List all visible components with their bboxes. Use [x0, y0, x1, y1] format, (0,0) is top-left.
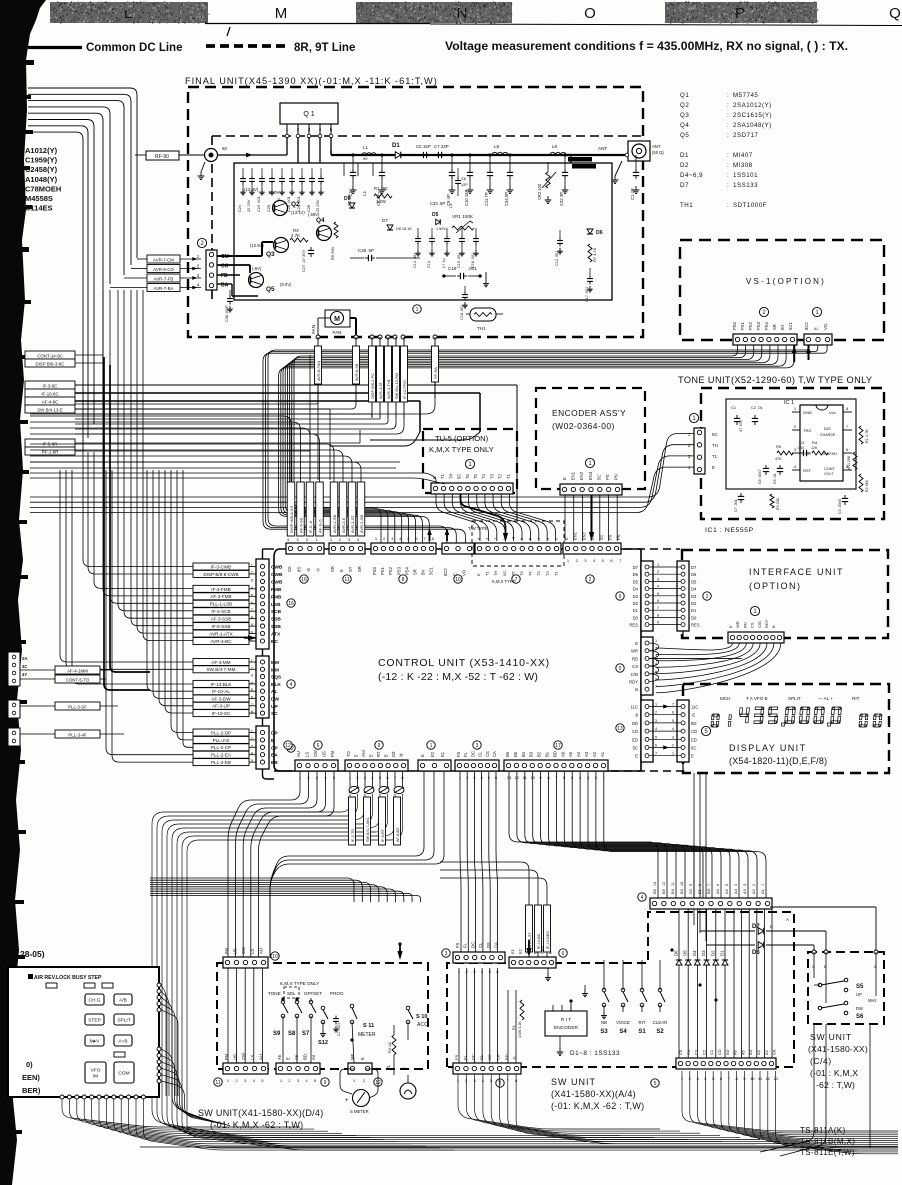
svg-text:B4: B4: [521, 751, 526, 757]
svg-text:(13.8V): (13.8V): [244, 187, 259, 192]
svg-text:B1: B1: [697, 888, 702, 894]
control top strip 11: [329, 543, 365, 554]
svg-text:A6: A6: [560, 751, 565, 757]
svg-text:5: 5: [725, 884, 729, 886]
panel bottom pins: [60, 1095, 64, 1099]
left strip group2 8pin: [256, 656, 269, 718]
svg-text:3: 3: [743, 884, 747, 886]
svg-text:M: M: [275, 5, 288, 22]
svg-text:EN2: EN2: [579, 471, 584, 480]
svg-text:C1: C1: [731, 405, 737, 410]
svg-text:AVR-1-ATX: AVR-1-ATX: [209, 631, 232, 636]
svg-text:1: 1: [672, 752, 674, 756]
svg-text:D3: D3: [633, 594, 639, 599]
left strips link wires: [262, 549, 264, 559]
RIT encoder box: [545, 1011, 587, 1036]
PA stage solid box: [234, 163, 612, 300]
svg-text:6: 6: [716, 884, 720, 886]
svg-text:EB: EB: [271, 760, 278, 766]
svg-text:K,M,X TYPE ONLY: K,M,X TYPE ONLY: [280, 981, 319, 986]
svg-text:EA: EA: [271, 753, 278, 759]
svg-text:12P: 12P: [461, 183, 468, 187]
svg-text:COM: COM: [118, 1071, 129, 1077]
coil L2 L3 L4 vertical: [343, 163, 345, 176]
panel right edge pins upper: [157, 983, 161, 987]
svg-text:Q5: Q5: [266, 286, 275, 293]
svg-text:L2: L2: [377, 191, 382, 196]
svg-text:C7 22P: C7 22P: [434, 144, 449, 149]
svg-text:2: 2: [752, 884, 756, 886]
svg-text:B5: B5: [513, 751, 518, 757]
svg-text:AVR-2-SB: AVR-2-SB: [359, 515, 364, 533]
svg-text:C32 3P: C32 3P: [559, 192, 564, 206]
svg-text:2A: 2A: [22, 656, 27, 661]
svg-text:2SA1012(Y): 2SA1012(Y): [733, 102, 772, 109]
resistor R7 4.7K: [588, 244, 592, 262]
svg-text:IF-3-FMB: IF-3-FMB: [211, 587, 230, 592]
svg-text:5C: 5C: [633, 746, 638, 751]
svg-text:60: 60: [222, 146, 228, 151]
svg-text:S3: S3: [600, 1029, 608, 1035]
diode D8: [706, 944, 755, 946]
svg-text:R5 560: R5 560: [330, 246, 335, 260]
svg-text:C14 .001: C14 .001: [413, 253, 417, 268]
svg-text:CLEAR: CLEAR: [653, 1020, 668, 1025]
svg-text:AVR-7-CM: AVR-7-CM: [153, 257, 174, 262]
thermistor TH1: [470, 308, 496, 321]
ground under strip6s: [547, 968, 549, 974]
svg-text:PS: PS: [608, 534, 613, 540]
svg-text:A6: A6: [715, 888, 720, 894]
wire bus strip-a to SW D4 strip10: [228, 772, 300, 958]
svg-text:-6: -6: [511, 537, 515, 540]
svg-text:IF-10-BD: IF-10-BD: [537, 933, 541, 949]
wire verticals mid-left descending: [102, 310, 104, 410]
svg-text:16: 16: [288, 601, 294, 607]
svg-text:PS4: PS4: [404, 566, 409, 575]
svg-text:C4: C4: [799, 440, 805, 445]
svg-text::: :: [727, 132, 729, 139]
svg-text:4: 4: [477, 538, 481, 540]
svg-text:R4: R4: [812, 440, 818, 445]
svg-text:5: 5: [655, 735, 657, 739]
wire arrow on RF line: [246, 153, 252, 158]
svg-text:Q3: Q3: [266, 251, 275, 258]
svg-text:IF-2-TO: IF-2-TO: [351, 829, 355, 842]
svg-text:ACC: ACC: [417, 1022, 428, 1028]
left edge stub connectors: [8, 652, 20, 686]
svg-text:MI407: MI407: [733, 152, 753, 159]
svg-text:EN1: EN1: [573, 531, 578, 540]
node C1 4P: [635, 155, 637, 170]
svg-text:2SA1048(Y): 2SA1048(Y): [733, 122, 772, 129]
svg-text:VO: VO: [823, 323, 828, 330]
resistor R1 180: [374, 194, 392, 198]
svg-text:FS: FS: [456, 751, 461, 757]
arrow into strip10 pin1: [445, 529, 450, 535]
svg-text:5: 5: [619, 666, 622, 672]
svg-text:BLK: BLK: [271, 682, 281, 688]
panel buttons: [85, 994, 104, 1005]
svg-text:ATX: ATX: [271, 632, 281, 638]
wire bus encoder to control strip 2: [564, 495, 566, 541]
svg-text:12K: 12K: [811, 446, 818, 450]
svg-text:L6: L6: [552, 144, 558, 149]
svg-text:Q 1: Q 1: [303, 111, 314, 118]
svg-text:LSB: LSB: [271, 602, 281, 608]
svg-text:E: E: [635, 641, 638, 646]
svg-text:C6: C6: [461, 177, 466, 181]
svg-text:T5: T5: [519, 571, 524, 576]
wire maze left vertical bus to label boxes: [83, 452, 193, 567]
svg-text:IF-9-RT: IF-9-RT: [381, 828, 385, 842]
svg-text:PS2: PS2: [388, 566, 393, 575]
svg-text:S9: S9: [273, 1031, 281, 1037]
wire bus below strip2b: [458, 1074, 660, 1129]
svg-text:1SS133: 1SS133: [733, 182, 758, 189]
svg-text:3: 3: [672, 735, 674, 739]
svg-text:R5: R5: [776, 444, 782, 449]
svg-text:NB: NB: [601, 1020, 607, 1025]
svg-text:DISP B/8-8-CWB: DISP B/8-8-CWB: [203, 572, 238, 577]
svg-text:AVR-8-CO: AVR-8-CO: [153, 267, 174, 272]
svg-text:Q: Q: [889, 5, 901, 22]
svg-text:LS: LS: [305, 752, 310, 757]
svg-text:(-01 : K,M,X: (-01 : K,M,X: [810, 1068, 858, 1078]
svg-text:2: 2: [672, 744, 674, 748]
svg-text:C11 7P: C11 7P: [484, 192, 489, 206]
svg-text:1: 1: [416, 307, 419, 313]
svg-text:D9: D9: [344, 196, 351, 202]
svg-text:+: +: [345, 1098, 349, 1104]
diode D5 VR1 100K: [436, 219, 441, 224]
svg-text:1 50V: 1 50V: [436, 227, 446, 231]
svg-text:TONE: TONE: [268, 991, 281, 996]
svg-text:E: E: [384, 754, 389, 757]
svg-text:DZ: DZ: [391, 751, 396, 757]
svg-text:VR1 20K: VR1 20K: [847, 455, 851, 470]
svg-text:A4: A4: [576, 751, 581, 757]
svg-text:0): 0): [26, 1060, 33, 1069]
SW UNIT D4 dashed box: [217, 963, 428, 1069]
svg-text:VOICE: VOICE: [616, 1020, 630, 1025]
svg-text:DS: DS: [486, 942, 491, 948]
svg-text:SW UNIT(X41-1580-XX)(D/4): SW UNIT(X41-1580-XX)(D/4): [198, 1108, 324, 1118]
vertical label boxes under strip b: [349, 797, 356, 845]
svg-text:VO: VO: [462, 569, 467, 576]
svg-text:D7: D7: [633, 565, 639, 570]
svg-text:T3: T3: [489, 473, 494, 479]
svg-text:S5: S5: [856, 984, 864, 990]
svg-text:MCH: MCH: [720, 696, 730, 701]
svg-text:D6: D6: [691, 572, 697, 577]
bold 8C horizontals: [75, 392, 480, 394]
panel right edge pins lower: [157, 1047, 161, 1051]
svg-text:12: 12: [766, 1076, 771, 1081]
svg-text:B: B: [770, 924, 773, 929]
svg-text:PLL-2-DP: PLL-2-DP: [211, 730, 231, 735]
svg-text:PS2: PS2: [748, 321, 753, 330]
svg-text:D7: D7: [752, 924, 760, 930]
wire bus VS-1 connector2 to control strip 8: [294, 345, 738, 546]
svg-text:FMB: FMB: [271, 587, 282, 593]
svg-text:C38 .5P: C38 .5P: [358, 248, 374, 253]
svg-text:PN: PN: [614, 474, 619, 480]
svg-text:E: E: [420, 754, 425, 757]
svg-text:(-01: K,M,X -62 : T,W): (-01: K,M,X -62 : T,W): [210, 1120, 303, 1130]
svg-text:C2: C2: [701, 1049, 706, 1055]
svg-text:IF-3-CWB: IF-3-CWB: [211, 564, 231, 569]
svg-text:CL: CL: [479, 1054, 484, 1060]
svg-text:B6: B6: [652, 888, 657, 894]
svg-text:9: 9: [657, 621, 659, 625]
svg-text:Vcc: Vcc: [829, 410, 836, 415]
svg-text:11C: 11C: [631, 705, 638, 710]
left stub labels AF-4-1MM CONT-5-TO: [55, 666, 100, 674]
svg-text:C5 .01: C5 .01: [773, 473, 777, 484]
svg-text:A5: A5: [740, 1049, 745, 1055]
svg-text:E: E: [564, 537, 569, 540]
svg-text:CD: CD: [717, 1049, 722, 1055]
svg-text:CWB: CWB: [271, 565, 283, 571]
display 7seg digits: [711, 714, 720, 727]
svg-text:6: 6: [520, 538, 524, 540]
svg-text:D1: D1: [392, 143, 400, 149]
svg-text:CA: CA: [772, 1049, 777, 1055]
lower small caps row: [417, 228, 419, 236]
svg-text:E1: E1: [440, 751, 445, 757]
svg-text:L7 1u: L7 1u: [442, 258, 446, 268]
svg-text:S METER: S METER: [350, 1109, 369, 1114]
svg-text:S2: S2: [656, 1029, 664, 1035]
control bottom strip b 8pin: [345, 760, 408, 771]
strip 11 D4: [223, 1063, 268, 1074]
svg-text:C12 .001: C12 .001: [555, 251, 559, 266]
svg-text:C6 .0047: C6 .0047: [758, 469, 762, 484]
svg-text:B: B: [635, 687, 638, 692]
svg-text:RD: RD: [632, 656, 638, 661]
svg-text:7: 7: [655, 685, 657, 689]
CONTROL UNIT outline: [274, 549, 641, 771]
svg-text:T2: T2: [545, 571, 550, 576]
index bar block L (dark): [50, 2, 208, 23]
svg-text:(X41-1580-XX)(A/4): (X41-1580-XX)(A/4): [551, 1089, 636, 1099]
svg-text:BD: BD: [552, 751, 557, 757]
svg-text:8S: 8S: [297, 567, 302, 572]
svg-text:C7-.001: C7-.001: [337, 1022, 341, 1036]
svg-text:L1: L1: [363, 145, 369, 150]
RF input coax J1: [205, 149, 218, 162]
svg-text:RIT: RIT: [852, 696, 860, 701]
control bottom strip e 13pin: [504, 760, 608, 771]
arrow on 5C1 wire: [793, 345, 795, 362]
svg-text:D1: D1: [633, 608, 639, 613]
svg-text:4.7K: 4.7K: [291, 233, 300, 238]
svg-text:A3: A3: [756, 1049, 761, 1055]
svg-text:AVR-2-E: AVR-2-E: [341, 517, 346, 533]
svg-text:ANI: ANI: [361, 750, 366, 757]
svg-text:C27 .47 35V: C27 .47 35V: [301, 249, 306, 272]
svg-text:D4: D4: [691, 587, 697, 592]
svg-text:IC 1: IC 1: [784, 400, 794, 406]
svg-text:RES: RES: [691, 623, 700, 628]
svg-text:IF-12-PRO: IF-12-PRO: [402, 380, 407, 399]
svg-text:D3: D3: [701, 950, 706, 956]
svg-text::: :: [727, 202, 729, 209]
resistor R3 1ohm: [392, 1035, 396, 1055]
svg-text:12: 12: [285, 743, 291, 749]
svg-text:ED: ED: [691, 737, 697, 742]
svg-text:LS: LS: [250, 949, 255, 954]
svg-text:R1 4.7K: R1 4.7K: [865, 429, 869, 443]
svg-text:Q4: Q4: [316, 217, 325, 224]
svg-text::: :: [727, 92, 729, 99]
svg-text:C2458(Y): C2458(Y): [25, 165, 58, 174]
svg-text:V S - 1 ( O P T I O N ): V S - 1 ( O P T I O N ): [746, 277, 824, 286]
svg-text:CA: CA: [494, 942, 499, 948]
svg-text:Q2: Q2: [291, 201, 300, 208]
svg-text:E: E: [635, 754, 638, 759]
svg-text:T/W TYPE: T/W TYPE: [468, 526, 488, 531]
svg-text:28-05): 28-05): [20, 949, 45, 959]
svg-text:PLL-3-SF: PLL-3-SF: [68, 704, 87, 709]
svg-text:11C: 11C: [691, 705, 698, 710]
svg-text:AF-3-FMB: AF-3-FMB: [210, 594, 231, 599]
wire bus mid horizontals feeding vertical label boxes: [30, 416, 291, 482]
svg-text:TU-5 (OPTION): TU-5 (OPTION): [435, 434, 489, 443]
svg-text:12: 12: [662, 882, 666, 886]
svg-text:CA: CA: [492, 751, 497, 757]
svg-text:S4: S4: [619, 1029, 627, 1035]
svg-text:SS: SS: [287, 566, 292, 572]
svg-text:SDT1000F: SDT1000F: [733, 202, 767, 209]
svg-text:1/2W: 1/2W: [376, 199, 386, 204]
svg-text:PS4: PS4: [764, 321, 769, 330]
svg-text:CONT-5-TO: CONT-5-TO: [66, 677, 90, 682]
svg-text:IC1 : NE555P: IC1 : NE555P: [705, 527, 754, 534]
svg-text:A3: A3: [584, 751, 589, 757]
svg-text:12.0V: 12.0V: [268, 190, 280, 195]
svg-text:10: 10: [272, 954, 278, 960]
svg-text:C15 .001: C15 .001: [457, 253, 461, 268]
svg-text:C1959(Y): C1959(Y): [25, 156, 58, 165]
svg-text:7: 7: [657, 606, 659, 610]
svg-text:E1: E1: [510, 948, 515, 954]
svg-text:IF-13-BLK: IF-13-BLK: [211, 682, 233, 687]
svg-text::: :: [727, 112, 729, 119]
svg-text:AF-6-BZ: AF-6-BZ: [396, 827, 400, 842]
control top strip 10: [442, 543, 474, 554]
tone inner solid box: [726, 399, 856, 489]
svg-text:PS: PS: [605, 474, 610, 480]
switch S5: [818, 983, 822, 987]
svg-text:PS1: PS1: [380, 566, 385, 575]
legend Common DC Line: [28, 46, 82, 49]
capacitor C27: [310, 247, 312, 250]
wire bus strip-e to strip4b: [509, 772, 658, 898]
svg-text:AF-4-1MM: AF-4-1MM: [67, 668, 88, 673]
control top edge dashes to interface: [624, 548, 680, 550]
svg-text:M4558S: M4558S: [25, 194, 53, 203]
svg-text:17: 17: [555, 743, 561, 749]
svg-text:C78MOEH: C78MOEH: [25, 184, 61, 193]
svg-text:BD: BD: [706, 888, 711, 894]
svg-text:10: 10: [680, 882, 684, 886]
svg-text:8D: 8D: [691, 721, 696, 726]
svg-text:1: 1: [657, 563, 659, 567]
capacitor C12 .001: [559, 230, 561, 238]
svg-text:C36 100P: C36 100P: [225, 305, 229, 322]
svg-text:IF-10-SC: IF-10-SC: [212, 711, 231, 716]
svg-text:S7: S7: [302, 1031, 310, 1037]
svg-text:Q1: Q1: [680, 92, 689, 99]
svg-text:4: 4: [290, 682, 293, 688]
svg-text:B5: B5: [661, 888, 666, 894]
left group3 label boxes: [193, 729, 249, 736]
svg-text:FAN: FAN: [311, 325, 316, 334]
svg-text:2: 2: [706, 594, 709, 600]
left group1 label boxes: [193, 563, 249, 570]
svg-text:CW: CW: [313, 750, 318, 757]
svg-text:22 25V: 22 25V: [315, 199, 320, 212]
wire bus interface connector to strip5: [656, 643, 733, 650]
svg-text:TONE UNIT(X52-1290-60) T,W TYP: TONE UNIT(X52-1290-60) T,W TYPE ONLY: [678, 375, 872, 385]
svg-text:E: E: [814, 327, 819, 330]
svg-text:D5: D5: [633, 579, 639, 584]
svg-text:SW UNIT: SW UNIT: [551, 1077, 596, 1087]
svg-text:E: E: [562, 477, 567, 480]
left group2 label boxes: [193, 659, 249, 666]
wire bus strip-d straight down: [460, 772, 461, 952]
svg-text:IF-10-8C: IF-10-8C: [41, 391, 58, 396]
svg-text:SR: SR: [772, 324, 777, 330]
svg-text:D7: D7: [382, 218, 388, 223]
left stub label PLL-3-SF: [55, 702, 100, 710]
svg-text:CWB: CWB: [271, 579, 283, 585]
svg-text:D5: D5: [691, 579, 697, 584]
svg-text:CA: CA: [496, 1054, 501, 1060]
svg-text:3: 3: [546, 538, 550, 540]
svg-text:6: 6: [657, 599, 659, 603]
svg-text:AF-3-SSB: AF-3-SSB: [211, 617, 232, 622]
svg-text:A6: A6: [733, 1049, 738, 1055]
diode column D6-D1: [678, 909, 680, 1058]
svg-text:DC: DC: [470, 942, 475, 948]
transistor Q2: [273, 201, 288, 216]
control bottom strip d 6pin: [455, 760, 499, 771]
IC1 chip body: [800, 405, 843, 481]
svg-text:BC: BC: [271, 639, 278, 645]
wire sweeps from panel right edge upper: [161, 985, 166, 1096]
strip 5b A4: [676, 1058, 776, 1069]
svg-text:(13.1V): (13.1V): [291, 210, 305, 215]
svg-text:(.68V): (.68V): [308, 212, 320, 217]
svg-text:.001: .001: [468, 266, 477, 271]
svg-text:PL: PL: [386, 1064, 391, 1070]
svg-text:D5: D5: [432, 212, 439, 218]
scan artifact nibs: [0, 60, 34, 65]
svg-text:Voltage measurement conditions: Voltage measurement conditions f = 435.0…: [445, 39, 848, 53]
svg-text:SC: SC: [271, 711, 278, 717]
diode D7: [700, 930, 755, 932]
svg-text:US: US: [233, 948, 238, 954]
wire maze to group2 boxes: [60, 470, 193, 662]
VS-1 connector 2: [733, 334, 797, 345]
svg-text:D1~8 : 1SS133: D1~8 : 1SS133: [570, 1050, 620, 1057]
svg-text:CWB: CWB: [271, 572, 283, 578]
svg-text:5C: 5C: [502, 571, 507, 576]
svg-text:1: 1: [655, 703, 657, 707]
